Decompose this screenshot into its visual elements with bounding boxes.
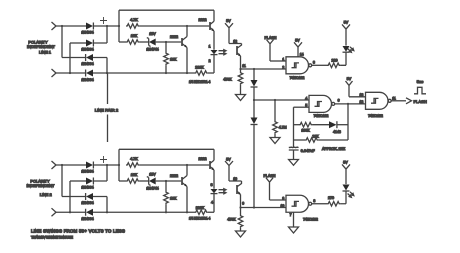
plus sign of bridge1 output (100, 17, 107, 24)
wire R8 to D8 (312, 124, 329, 126)
svg-text:4.7K: 4.7K (130, 18, 138, 22)
schmitt symbol U5C (371, 98, 379, 103)
svg-text:10: 10 (233, 177, 237, 181)
svg-text:5V: 5V (226, 157, 231, 161)
ground below U5D pin7 (289, 227, 299, 233)
wire - rail middle (93, 72, 195, 74)
svg-text:15V: 15V (149, 173, 156, 177)
resistor R8 100K (299, 122, 312, 127)
svg-text:1/4 NEC2501-4: 1/4 NEC2501-4 (189, 80, 210, 84)
ground below C1 (289, 160, 299, 166)
LED D7 emission arrows (348, 47, 354, 53)
svg-text:1/4 NEC2501-4: 1/4 NEC2501-4 (189, 217, 210, 221)
opto U2 phototransistor (236, 185, 238, 194)
junction dot U2 emitter node (239, 206, 241, 208)
transistor Q2 2222 (209, 22, 211, 30)
op-amp U5A 74HC132 NAND schmitt gate body (286, 57, 309, 74)
junction dot x107 rail2 (106, 211, 108, 213)
svg-text:220K: 220K (196, 206, 205, 210)
svg-text:13: 13 (360, 93, 364, 97)
opto U2 emission arrows (219, 189, 227, 194)
svg-text:10K: 10K (131, 173, 138, 177)
svg-text:14: 14 (300, 53, 304, 57)
svg-text:8: 8 (313, 199, 315, 203)
pin 5 stub U5B from RC node (294, 106, 310, 108)
svg-text:2: 2 (282, 65, 284, 69)
input terminal arrow LINE2 tip B (52, 208, 57, 216)
input terminal arrow LINE1 tip B (52, 69, 57, 77)
pin 14 VCC wire U5A (297, 47, 299, 57)
wire line2-A to bridge (56, 164, 86, 166)
top feedback rail y11 (119, 9, 214, 11)
svg-text:THAN 15V WHEN IT IS IN USE: THAN 15V WHEN IT IS IN USE (31, 236, 74, 240)
input terminal arrow LINE1 tip A (52, 22, 57, 30)
wire FLASH to pin9 (270, 199, 287, 201)
wire vertical x119 rail to zener row (118, 10, 120, 42)
wire 5V to pin13 (349, 96, 366, 98)
svg-text:220K: 220K (195, 66, 204, 70)
LED D7 indicator (points down) (343, 51, 350, 53)
schmitt symbol U5A (292, 63, 300, 68)
wire R1 to Q2 base (139, 25, 209, 27)
junction dot +node2 x119 (118, 164, 120, 166)
svg-text:2222: 2222 (199, 18, 207, 22)
svg-text:LINE PAIR 2: LINE PAIR 2 (95, 108, 119, 113)
junction dot R12 to rail2 (165, 211, 167, 213)
junction dot +node x119 (118, 25, 120, 27)
junction dot zener2 node (165, 180, 167, 182)
diode D2 1N4004 (bridge1) (86, 40, 93, 47)
svg-text:2222: 2222 (170, 35, 178, 39)
resistor R6 4.7M vertical (274, 100, 276, 121)
output bubble U5B (332, 102, 335, 105)
opto U1 LED (points down) (211, 50, 218, 54)
pin 7 GND wire U5D (293, 212, 295, 227)
wire feedback row1 left (294, 124, 300, 126)
wire bus to D11 cathode (62, 196, 86, 198)
junction dot +node2 x107 (106, 164, 108, 166)
wire line1-A to bridge (56, 25, 86, 27)
resistor R15 270 (327, 201, 340, 206)
svg-text:10: 10 (281, 204, 285, 208)
svg-text:4.7M: 4.7M (279, 126, 287, 130)
junction dot D5 tap (253, 68, 255, 70)
diode D6 (points down, OR chain) (253, 100, 255, 118)
LED D13 indicator (points down) (343, 190, 350, 192)
resistor R1 4.7K (126, 24, 139, 29)
svg-text:5V: 5V (343, 161, 348, 165)
wire zener row left (119, 41, 126, 43)
svg-text:74HC132: 74HC132 (368, 114, 383, 118)
junction dot Q3 emitter rail2 (186, 211, 188, 213)
junction dot Q3 collector (186, 164, 188, 166)
svg-text:470K: 470K (227, 218, 236, 222)
zener diode Z2 15V 1N4744 (points left) (147, 177, 151, 186)
svg-text:470K: 470K (223, 77, 232, 81)
svg-text:5ms: 5ms (417, 80, 424, 84)
resistor R7 220 (327, 63, 340, 68)
diode D12 1N4004 (bridge2, points left, on rail) (85, 209, 87, 216)
wire U2 emitter node to gate U5D pin10 (241, 207, 287, 209)
wire feedback row2 left (294, 139, 306, 141)
wire R15 to LED2 (340, 192, 346, 204)
wire zener2 row left (119, 180, 126, 182)
junction dot x70 rail2 (69, 211, 71, 213)
svg-text:4.7K: 4.7K (130, 157, 138, 161)
junction dot detect node (253, 99, 255, 101)
svg-text:270: 270 (328, 196, 334, 200)
wire zener to Q1 base (156, 41, 182, 43)
diode D1 1N4004 (bridge1) (86, 23, 93, 30)
junction dot R3 to rail (165, 72, 167, 74)
transistor Q4 2222 (209, 161, 211, 169)
ground below R5 (236, 95, 246, 101)
wire vertical bus2 x62 (61, 165, 63, 197)
svg-text:1N4744: 1N4744 (146, 48, 158, 52)
svg-text:3: 3 (211, 183, 213, 187)
svg-text:9: 9 (282, 196, 284, 200)
resistor R9 22K (305, 138, 318, 143)
svg-text:5V: 5V (295, 39, 300, 43)
separator line pair 2 upper segment (107, 73, 109, 104)
svg-text:5V: 5V (344, 21, 349, 25)
node dot line2 A bus (61, 164, 63, 166)
wire rail2 left (56, 211, 86, 213)
svg-text:FLASH: FLASH (414, 99, 427, 104)
svg-text:1N4004: 1N4004 (81, 186, 93, 190)
junction dot Q1 emitter rail (186, 72, 188, 74)
capacitor C1 0.047uF (289, 147, 299, 150)
svg-text:APPROX. 2HZ: APPROX. 2HZ (322, 147, 346, 151)
top rail2 y150 (119, 148, 214, 150)
svg-text:7: 7 (290, 213, 292, 217)
resistor R3 10K vertical (165, 42, 167, 52)
svg-text:LINE 2: LINE 2 (40, 192, 52, 197)
svg-text:1N4004: 1N4004 (81, 31, 93, 35)
svg-text:LINE 1: LINE 1 (39, 49, 51, 54)
wire R4 to opto LED cathode (208, 72, 214, 74)
svg-text:74HC132: 74HC132 (303, 218, 318, 222)
svg-text:74HC132: 74HC132 (314, 114, 329, 118)
wire D8 to feedback vertical (337, 124, 348, 126)
plus sign of bridge2 output (100, 156, 107, 163)
wire U1 emitter node to gate U5A pin2 (241, 68, 287, 70)
schmitt symbol U5D (292, 201, 300, 206)
junction dot x70 rail (69, 72, 71, 74)
resistor R11 10K (126, 179, 139, 184)
svg-text:10K: 10K (170, 197, 177, 201)
wire feedback vertical right x348 (347, 104, 349, 140)
node A tee dot (61, 25, 63, 27)
output terminal arrow FLASH (406, 98, 412, 104)
resistor R5 470K vertical (240, 69, 242, 72)
wire vertical x119 rail2 to zener2 row (118, 149, 120, 181)
op-amp U5B 74HC132 NAND schmitt gate body (309, 95, 332, 112)
opto U1 phototransistor (236, 46, 238, 55)
wire R7 to LED1 (340, 53, 346, 66)
wire R10 to Q4 base (139, 164, 209, 166)
svg-text:1N4004: 1N4004 (81, 201, 93, 205)
svg-text:2222: 2222 (199, 157, 207, 161)
svg-text:1N4004: 1N4004 (81, 78, 93, 82)
ground below R6 (270, 138, 280, 144)
wire D9 cathode to +node2 (93, 164, 119, 166)
svg-text:FLASH: FLASH (264, 174, 276, 178)
input terminal arrow LINE2 tip A (52, 161, 57, 169)
diode D10 1N4004 (bridge2) (86, 178, 93, 185)
svg-text:2: 2 (209, 59, 211, 63)
resistor R14 470K vertical (240, 208, 242, 215)
wire vertical bus2 x70 (69, 181, 71, 212)
svg-text:1N4744: 1N4744 (146, 187, 158, 191)
LED D13 emission arrows (348, 192, 354, 198)
svg-text:LINE SWINGS FROM 50+ VOLTS TO: LINE SWINGS FROM 50+ VOLTS TO LESS (31, 229, 125, 234)
svg-text:4: 4 (211, 200, 213, 204)
svg-text:3: 3 (313, 61, 315, 65)
svg-text:10K: 10K (131, 34, 138, 38)
wire D6 down to line2 opto node (253, 125, 255, 208)
svg-text:12: 12 (233, 39, 237, 43)
wire D2 cathode up to + (93, 26, 107, 43)
svg-text:6: 6 (338, 99, 340, 103)
svg-text:220: 220 (332, 59, 338, 63)
output bubble U5D (309, 202, 312, 205)
wire zener2 to Q3 base (156, 180, 182, 182)
transistor Q1 2222 (181, 38, 183, 46)
transistor Q3 2222 (181, 177, 183, 185)
output bubble U5C (388, 99, 391, 102)
wire A-bus to D3 cathode (62, 57, 86, 59)
op-amp U5D 74HC132 NAND schmitt gate body (286, 195, 309, 212)
svg-text:74HC132: 74HC132 (290, 76, 305, 80)
junction dot 4.7M tap (274, 99, 276, 101)
svg-text:INDEPENDENT: INDEPENDENT (27, 183, 56, 188)
wire - rail left (56, 72, 86, 74)
wire U5A output to R7 (312, 64, 327, 66)
ground below R14 (236, 231, 246, 237)
svg-text:4148: 4148 (333, 130, 341, 134)
pulse waveform symbol (414, 87, 426, 94)
opto U1 emission arrows (219, 50, 227, 55)
wire R13 to opto2 LED cathode (208, 211, 214, 213)
diode D11 1N4004 (bridge2, points left) (85, 193, 87, 200)
op-amp U5C 74HC132 NAND schmitt gate body (366, 92, 389, 109)
junction dot x107 rail (106, 72, 108, 74)
svg-text:5V: 5V (226, 19, 231, 23)
wire R9 to feedback vertical (318, 139, 348, 141)
opto U2 LED (points down) (211, 189, 218, 193)
junction dot U1 emitter node (239, 68, 241, 70)
svg-text:1N4004: 1N4004 (81, 48, 93, 52)
wire R11 to zener2 (139, 180, 149, 182)
svg-text:1N4004: 1N4004 (81, 62, 93, 66)
wire rail2 middle (93, 211, 195, 213)
zener diode Z1 15V 1N4744 (points left) (147, 38, 151, 47)
diode D9 1N4004 (bridge2) (86, 162, 93, 169)
wire vertical bus x70 D2 row to - rail (69, 43, 71, 73)
svg-text:15V: 15V (149, 32, 156, 36)
wire U5C output (391, 100, 406, 102)
svg-text:11: 11 (242, 64, 246, 68)
svg-text:12: 12 (360, 100, 364, 104)
svg-text:22K: 22K (312, 135, 319, 139)
wire D1 cathode to +node (93, 25, 119, 27)
schmitt symbol U5B (315, 102, 323, 107)
wire U5D output to R15 (312, 203, 327, 205)
diode D4 1N4004 (bridge1, points left, on rail) (85, 70, 87, 77)
svg-text:1N4004: 1N4004 (81, 170, 93, 174)
svg-text:FLASH: FLASH (265, 36, 277, 40)
wire bus to D10 anode (70, 180, 86, 182)
diode D5 (points down, OR chain) (253, 69, 255, 80)
junction dot +node x107 (106, 25, 108, 27)
junction dot zener node (165, 41, 167, 43)
separator line pair 2 lower segment (107, 115, 109, 143)
svg-text:100K: 100K (301, 129, 310, 133)
wire U5B output to U5C pin12 (335, 103, 366, 105)
wire vertical bus x62 A to D3 row (61, 26, 63, 58)
junction dot feedback tap (347, 103, 349, 105)
wire FLASH to pin1 (270, 60, 286, 62)
svg-text:0.047uF: 0.047uF (301, 149, 315, 153)
wire RC node vertical left x293.5 (293, 107, 295, 147)
resistor R10 4.7K (126, 163, 139, 168)
resistor R13 220K on rail2 (195, 210, 208, 215)
svg-text:4: 4 (305, 96, 307, 100)
svg-text:1: 1 (209, 45, 211, 49)
junction dot Q1 collector (186, 25, 188, 27)
diode D3 1N4004 (bridge1, points left) (85, 54, 87, 61)
svg-text:5V: 5V (347, 77, 352, 81)
svg-text:1: 1 (282, 58, 284, 62)
wire detect node to gate U5B pin4 (254, 99, 309, 101)
wire B-bus to D2 anode (70, 42, 86, 44)
svg-text:1N4004: 1N4004 (81, 217, 93, 221)
wire D11 anode down to rail2 (93, 197, 107, 213)
svg-text:2222: 2222 (170, 174, 178, 178)
output bubble U5A (309, 64, 312, 67)
svg-text:11: 11 (392, 96, 396, 100)
junction dot D6 chain join (253, 206, 255, 208)
resistor R4 220K on rail (195, 71, 208, 76)
resistor R12 10K vertical (165, 181, 167, 191)
wire D10 cathode up to +2 (93, 165, 107, 181)
svg-text:10K: 10K (170, 58, 177, 62)
svg-text:9: 9 (242, 202, 244, 206)
wire R2 to zener (139, 41, 149, 43)
wire D3 anode down to - rail (93, 58, 107, 74)
svg-text:INDEPENDENT: INDEPENDENT (27, 44, 56, 49)
svg-text:5: 5 (305, 104, 307, 108)
resistor R2 10K (126, 40, 139, 45)
diode D8 4148 (points right) (329, 121, 337, 128)
